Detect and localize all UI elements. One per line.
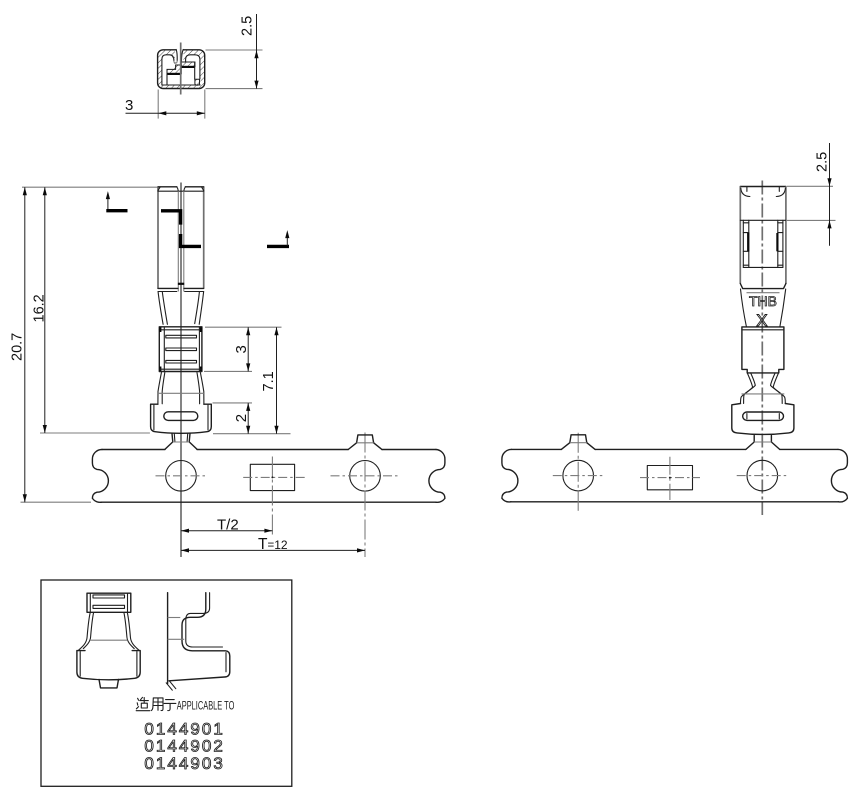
right pilot hole 1 crosshair h — [553, 475, 604, 477]
front box top band line — [158, 190, 204, 192]
side neck2 left — [741, 373, 753, 404]
dim 16.2 line — [44, 187, 46, 433]
detail neck left inner — [83, 613, 93, 649]
right stub tab — [570, 435, 587, 443]
side box right wall — [785, 187, 787, 284]
front insulation crimp slot — [164, 412, 198, 421]
index rect crosshair v — [271, 457, 273, 537]
front insulation crimp inner right — [207, 405, 209, 430]
section outer shell outline — [158, 50, 205, 89]
detail ins crimp body — [77, 651, 140, 680]
section void top seam gap — [175, 49, 184, 69]
dim T=12 arrow left — [181, 548, 189, 552]
hanzi shi 适 — [136, 697, 150, 710]
stub tab above hole 2 — [357, 435, 374, 443]
detail neck gray line — [90, 639, 128, 641]
side box corner hook right — [776, 187, 785, 197]
right pilot hole 2 crosshair h — [737, 475, 788, 477]
cutting arrow left head — [106, 191, 110, 199]
front crimp slot 3 — [166, 360, 197, 363]
section right arch inner outline — [186, 55, 200, 79]
front neck1 left inner — [162, 292, 167, 325]
dim 2.5R ext bottom — [787, 219, 836, 221]
SIDE-VIEW — [732, 143, 836, 515]
side box outline — [740, 186, 786, 188]
side insulation slot inner ticks — [747, 414, 779, 419]
dim 7.1 line — [276, 327, 278, 434]
pilot hole 1 — [166, 461, 197, 492]
svg-text:0144903: 0144903 — [144, 754, 223, 773]
pilot hole 2 crosshair h — [331, 475, 400, 477]
svg-text:16.2: 16.2 — [32, 294, 48, 322]
side wire crimp top band — [742, 329, 784, 331]
section shell hatched body — [158, 50, 205, 89]
ext line strip bottom left — [21, 501, 92, 503]
front crimp slot 1 — [166, 335, 197, 338]
side funnel right — [780, 289, 786, 327]
DETAIL-BOX — [41, 580, 292, 786]
section void main cavity — [167, 62, 200, 85]
cutting arrow right bar — [267, 245, 289, 248]
hanzi yong 用 — [151, 698, 163, 711]
front crimp bottom band — [160, 368, 201, 370]
DIMENSIONS-LEFT — [10, 187, 291, 502]
dim T/2 line — [181, 530, 272, 532]
stub tab flare left — [348, 443, 356, 450]
dim 2.5R arrow down — [827, 178, 831, 186]
side neck2 left inner — [744, 373, 756, 404]
right strip top edge segments — [512, 448, 839, 450]
ext line crimp bottom left — [40, 432, 150, 434]
front box seam thick dash — [178, 283, 184, 285]
section inner cavity right edge — [194, 62, 196, 79]
stub tab gray base — [357, 442, 374, 444]
svg-text:3: 3 — [125, 97, 133, 114]
svg-text:7.1: 7.1 — [261, 371, 277, 391]
ext line ins crimp bottom right — [213, 433, 291, 435]
side box bottom edge — [740, 284, 786, 289]
dim T=12 arrow right — [357, 548, 365, 552]
section projection line right — [204, 90, 206, 119]
front neck1 right inner — [195, 292, 200, 324]
section inner bottom edge — [162, 84, 200, 86]
dim 2.5 arrow up — [254, 50, 258, 58]
front insulation crimp body — [151, 404, 212, 433]
section bar1 bottom thick edge — [181, 66, 195, 68]
side box window lines right — [778, 223, 783, 265]
detail profile inner contour — [186, 593, 226, 672]
front wire crimp body — [159, 327, 202, 372]
front neck1 left outer — [158, 292, 163, 325]
section void left arch interior — [162, 55, 174, 85]
FRONT-VIEW — [106, 183, 290, 558]
side box corner hook left — [741, 187, 750, 197]
dim T=12 line — [181, 549, 365, 551]
section left arch right leg outline — [176, 50, 177, 61]
side neck2 right — [773, 373, 785, 404]
side neck2 right inner — [771, 373, 783, 404]
pilot hole 2 — [350, 461, 381, 492]
LEFT-STRIP — [92, 433, 445, 558]
side neck2 gray line — [742, 393, 785, 395]
front box top seam notch — [177, 187, 186, 191]
right strip bottom edge — [511, 501, 839, 503]
detail profile gray line 2 — [168, 638, 185, 640]
ext line part top — [22, 186, 158, 188]
dim 2 arrow bottom — [246, 426, 250, 434]
side bottom tab — [746, 436, 780, 450]
SECTION-VIEW — [125, 14, 263, 119]
hanzi yu 于 — [164, 700, 176, 711]
front box top edge — [158, 186, 204, 188]
detail crimp slot 1 — [93, 595, 125, 598]
dim 7.1 arrow top — [274, 327, 278, 335]
right index rect hole — [647, 466, 692, 490]
side centerline axis — [761, 181, 763, 516]
svg-text:2.5: 2.5 — [240, 16, 256, 36]
cutting arrow left bar — [106, 209, 127, 212]
svg-text:2.5: 2.5 — [815, 152, 831, 172]
detail ins crimp inner walls — [80, 652, 137, 677]
dim 3 right line — [247, 327, 249, 371]
dim 2.5 extension top — [206, 49, 263, 51]
front wire crimp corner accents — [160, 327, 201, 371]
svg-text:T=12: T=12 — [258, 536, 288, 553]
detail profile gray line 1 — [168, 617, 181, 619]
stub tab flare right — [374, 443, 382, 450]
detail neck left outer — [78, 613, 90, 651]
dim 20.7 arrow bottom — [23, 494, 27, 502]
front seam line right — [183, 191, 185, 291]
side box inner wall right — [778, 220, 783, 267]
side contact bar right — [776, 233, 778, 251]
right pilot hole 2 — [747, 460, 778, 491]
section tongue edge — [166, 74, 168, 85]
front neck2 right outer — [200, 373, 204, 405]
right stub tab gray base — [570, 442, 587, 444]
section bar1 hatched — [181, 62, 195, 67]
side box lance line — [740, 219, 786, 221]
dim 3 arrow left — [158, 111, 166, 115]
front crimp slot 2 — [166, 348, 197, 351]
dim 2.5 line — [256, 14, 258, 89]
dim 7.1 arrow bottom — [274, 426, 278, 434]
cutting arrow left stem — [107, 196, 109, 210]
front neck1 right outer — [199, 292, 203, 325]
dim 2 arrow top — [246, 403, 250, 411]
dim T/2 arrow left — [181, 529, 189, 533]
front bottom tab inner lines — [174, 434, 187, 442]
right index rect crosshair v — [669, 457, 671, 500]
front wire crimp top band — [159, 329, 202, 331]
detail crimp slot 2 — [93, 605, 125, 608]
section bar2 bottom thick edge — [167, 73, 181, 75]
section void right arch interior — [186, 55, 201, 62]
side insulation slot — [743, 412, 784, 420]
side box inner wall left — [743, 220, 749, 267]
front neck2 left inner — [162, 373, 165, 404]
dim 2 line — [247, 403, 249, 434]
detail profile hatch ticks — [166, 681, 176, 690]
side THB underline — [747, 292, 780, 294]
detail bottom tab — [99, 679, 119, 688]
front neck2 right inner — [197, 373, 200, 404]
strip bottom edge — [101, 501, 436, 503]
front bottom tab gray line — [173, 441, 189, 443]
right strip left end contour — [502, 449, 518, 502]
side bottom tab gray base — [754, 441, 771, 443]
detail profile outer contour — [169, 593, 230, 681]
section cut line lower — [181, 234, 201, 246]
section left leg tip cup — [174, 61, 177, 64]
detail crimp body — [87, 593, 131, 612]
dim 20.7 line — [24, 187, 26, 502]
front wire crimp inner left — [163, 327, 165, 371]
dim 2.5R ext top — [787, 185, 833, 187]
right stub tab flares — [561, 443, 595, 450]
detail neck right inner — [124, 613, 134, 649]
front seam line left — [177, 191, 179, 291]
right index rect crosshair h — [640, 477, 700, 479]
section top seam notch white — [177, 48, 184, 53]
index rect hole — [250, 464, 294, 490]
section bar2 hatched — [167, 65, 181, 74]
dim 3 line — [126, 112, 205, 114]
section foot hatched — [195, 79, 200, 85]
RIGHT-STRIP — [502, 433, 848, 512]
svg-text:APPLICABLE TO: APPLICABLE TO — [177, 700, 235, 713]
svg-text:THB: THB — [749, 294, 777, 309]
dim 2.5 arrow down — [254, 81, 258, 89]
strip right end contour — [429, 450, 445, 503]
side box left wall — [739, 187, 741, 284]
section right arch left leg outline — [181, 50, 183, 63]
detail neck right outer — [127, 613, 139, 651]
detail profile left edge — [167, 593, 169, 684]
ext line crimp top right — [205, 326, 282, 328]
side insulation crimp — [732, 404, 794, 435]
dim 2.5R line — [829, 143, 831, 246]
front box bottom band — [158, 291, 204, 293]
front bottom tab right — [189, 434, 197, 450]
side funnel left — [741, 289, 747, 327]
front wire crimp inner right — [198, 327, 200, 371]
dim 16.2 arrow bottom — [43, 425, 47, 433]
detail crimp inner walls — [90, 593, 127, 612]
ext line crimp bottom right — [204, 370, 252, 372]
right index rect center dot — [669, 477, 671, 479]
svg-text:3: 3 — [233, 345, 250, 353]
right strip right end contour — [831, 449, 847, 502]
side wire crimp — [742, 327, 784, 373]
front box top chamfers — [158, 187, 204, 191]
svg-text:2: 2 — [233, 414, 250, 422]
strip top edge segments — [102, 449, 436, 451]
ext line ins crimp top right — [213, 402, 253, 404]
pilot hole 2 crosshair v — [364, 433, 366, 558]
cutting arrow right stem — [286, 235, 288, 246]
front box left wall — [157, 187, 159, 289]
dim 3 arrow right — [197, 111, 205, 115]
side box window lines left — [743, 223, 749, 265]
dim T/2 arrow right — [264, 529, 272, 533]
dim 16.2 arrow top — [43, 187, 47, 195]
section centerline — [180, 43, 182, 95]
front box right wall — [203, 187, 205, 289]
section left arch inner outline — [162, 55, 174, 85]
front neck2 gray line — [158, 392, 204, 394]
dim 20.7 arrow top — [23, 187, 27, 195]
side box inner bottom — [743, 266, 783, 268]
dim 2.5R arrow up — [827, 220, 831, 228]
right pilot hole 1 — [563, 460, 594, 491]
detail box frame — [41, 580, 292, 786]
section cut line upper — [161, 211, 181, 225]
index rect center dot — [271, 476, 273, 478]
pilot hole 1 crosshair — [156, 475, 207, 477]
front insulation crimp inner left — [153, 405, 155, 430]
dim 3 right arrow bottom — [246, 363, 250, 371]
dim 2.5 extension bottom — [206, 88, 263, 90]
front centerline axis — [180, 183, 182, 558]
section projection line left — [157, 90, 159, 119]
dim 3 right arrow top — [246, 327, 250, 335]
front neck2 left outer — [158, 373, 162, 405]
front box bottom edge — [158, 287, 204, 289]
index rect crosshair h — [243, 476, 306, 478]
right pilot hole 1 crosshair v — [577, 433, 579, 512]
svg-text:20.7: 20.7 — [10, 333, 26, 361]
strip left end contour — [92, 449, 108, 502]
cutting arrow right head — [285, 230, 289, 238]
svg-text:T/2: T/2 — [217, 516, 239, 533]
front bottom tab left — [165, 434, 173, 450]
side contact bar left — [747, 233, 749, 251]
